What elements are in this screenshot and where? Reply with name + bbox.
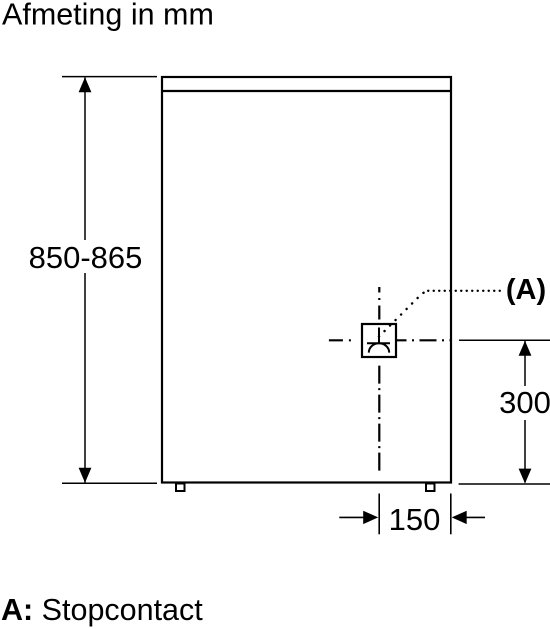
dim 300 dimension line [519, 341, 532, 484]
dim 300 bottom extension line [459, 483, 550, 485]
dim 150 left extension line [378, 494, 380, 535]
dotted leader horizontal part [428, 290, 500, 292]
vertical centerline below socket (dash-dot) [378, 366, 380, 472]
socket symbol earth arc [369, 343, 389, 352]
svg-text:A: Stopcontact: A: Stopcontact [1, 593, 203, 627]
svg-text:Afmeting in mm: Afmeting in mm [2, 0, 214, 32]
socket symbol diameter line [367, 342, 390, 344]
dim 150 right arrow [452, 511, 485, 524]
horizontal centerline left segment (dash-dot) [329, 339, 362, 341]
dim 300 top extension line [459, 339, 550, 341]
appliance outline [162, 77, 451, 483]
socket symbol box U1 [362, 324, 396, 357]
horizontal centerline right segment (dash-dot) [397, 339, 451, 341]
svg-text:300: 300 [499, 385, 550, 420]
left foot [176, 484, 185, 492]
right foot [426, 484, 435, 492]
dim 150 right extension line [450, 494, 452, 535]
dim 150 left arrow [339, 511, 378, 524]
vertical centerline above socket (dash-dot) [378, 287, 380, 324]
dim 850-865 bottom extension line [62, 482, 157, 484]
svg-text:850-865: 850-865 [29, 240, 143, 275]
svg-text:150: 150 [389, 502, 441, 537]
appliance top strip line [162, 90, 451, 92]
dim 850-865 dimension line [79, 77, 92, 482]
svg-text:(A): (A) [506, 274, 546, 306]
socket symbol pin stroke [378, 328, 380, 344]
dim 850-865 top extension line [62, 76, 157, 78]
dotted leader diagonal part [379, 291, 430, 337]
